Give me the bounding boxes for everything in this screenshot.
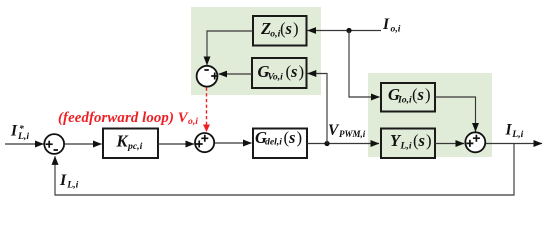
- svg-text:del,i: del,i: [265, 137, 282, 148]
- summing junction S4: [465, 132, 485, 152]
- wire: Io,i branch down to GIo,i input: [349, 31, 380, 98]
- svg-text:o,i: o,i: [391, 23, 401, 34]
- svg-text:I: I: [59, 172, 67, 189]
- svg-text:): ): [425, 85, 431, 104]
- block GVo,i(s) (voltage gain block): [252, 58, 307, 88]
- red feedforward loop annotation text: [58, 110, 198, 127]
- wire: Zo,i output to S3 top: [207, 31, 253, 65]
- svg-text:s: s: [285, 19, 292, 38]
- wire: Io,i to Zo,i input: [308, 30, 381, 32]
- node I_o,i label: [382, 16, 401, 34]
- shaded group box (output impedance feedforward group): [191, 7, 321, 95]
- wire: S2 to Gdel,i: [215, 142, 252, 144]
- node I_L,i output label: [505, 122, 524, 140]
- wire: GVo,i output to summing junction S3: [219, 73, 252, 75]
- svg-text:): ): [299, 62, 305, 81]
- svg-text:s: s: [290, 62, 297, 81]
- svg-text:): ): [426, 131, 432, 150]
- summing junction S3: [197, 66, 219, 87]
- wire: Gdel,i to YL,i with node VPWM: [307, 143, 379, 145]
- svg-text:s: s: [418, 131, 425, 150]
- summing junction S1: [44, 134, 64, 154]
- svg-text:L,i: L,i: [511, 129, 523, 140]
- svg-text:): ): [297, 128, 303, 147]
- svg-text:(feedforward loop) V: (feedforward loop) V: [58, 110, 189, 126]
- block GIo,i(s) (output current gain): [381, 83, 435, 112]
- wire: feedback from output down and left: [55, 144, 514, 196]
- svg-text:PWM,i: PWM,i: [339, 129, 366, 139]
- shaded group box (plant admittance group): [368, 73, 492, 157]
- wire: S4 to output I_L,i: [486, 143, 542, 145]
- svg-text:Vo,i: Vo,i: [268, 71, 284, 82]
- svg-text:I: I: [10, 123, 18, 140]
- svg-text:pc,i: pc,i: [127, 141, 143, 152]
- wire: GIo,i output to S4 top: [435, 97, 476, 132]
- svg-text:s: s: [417, 85, 424, 104]
- wire: YL,i output to S4: [435, 143, 464, 145]
- node V_PWM,i label: [328, 122, 366, 139]
- node I_L,i feedback label: [59, 172, 79, 190]
- wire: input to summing junction S1: [5, 143, 44, 145]
- wire: Kpc,i to summing junction S2: [158, 143, 194, 145]
- svg-text:I: I: [505, 122, 513, 139]
- summing junction S2: [195, 133, 214, 152]
- svg-text:s: s: [288, 128, 295, 147]
- block Gdel,i(s) (delay transfer function): [253, 128, 307, 158]
- node junction dot on Io,i line: [346, 28, 351, 33]
- node junction dot V_PWM,i: [324, 141, 329, 146]
- svg-text:K: K: [116, 132, 129, 151]
- svg-text:I: I: [382, 16, 390, 33]
- block Zo,i(s) (output impedance): [253, 16, 307, 46]
- wire: S1 to Kpc,i: [65, 143, 102, 145]
- svg-text:L,i: L,i: [17, 131, 29, 142]
- block YL,i(s) (inductor admittance): [381, 129, 435, 159]
- svg-text:): ): [293, 19, 299, 38]
- node I*_L,i (current reference input label): [10, 123, 29, 142]
- block Kpc,i (current controller): [103, 129, 158, 159]
- svg-text:o,i: o,i: [188, 116, 198, 127]
- wire: VPWM node up to GVo,i input: [308, 74, 327, 144]
- red dashed feedforward wire: S3 to S2: [206, 88, 208, 132]
- svg-text:L,i: L,i: [400, 140, 412, 151]
- svg-text:L,i: L,i: [66, 179, 78, 190]
- svg-text:Io,i: Io,i: [397, 95, 412, 106]
